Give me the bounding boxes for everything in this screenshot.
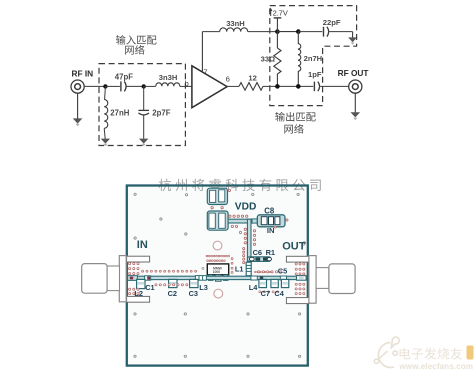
capacitor C6 xyxy=(249,257,260,261)
label 输入匹配网络 xyxy=(116,35,156,54)
pad C5 on trace xyxy=(280,276,306,281)
junction 2n7H top xyxy=(296,29,301,34)
pad L3 on trace xyxy=(195,276,206,281)
svg-text:2p7F: 2p7F xyxy=(152,109,170,118)
inductor 2n7H xyxy=(298,32,301,87)
inductor L4 xyxy=(259,279,267,287)
svg-text:www.elecfans.com: www.elecfans.com xyxy=(399,362,474,371)
via row above C6 branch xyxy=(255,271,257,273)
via row above main trace left xyxy=(142,270,144,272)
VDD pad group A xyxy=(207,188,227,204)
VDD trace horizontal xyxy=(228,219,252,223)
capacitor C4 xyxy=(281,279,288,287)
junction 33Ω bottom xyxy=(275,84,280,89)
svg-text:7: 7 xyxy=(203,68,207,77)
junction 33nH/supply xyxy=(275,29,280,34)
inductor 33nH xyxy=(202,28,277,32)
mounting hole lower xyxy=(214,289,223,298)
via rows right segment above trace xyxy=(258,271,260,273)
PCB board fill xyxy=(127,186,308,366)
sparse interior vias xyxy=(134,193,136,195)
svg-text:R1: R1 xyxy=(266,248,275,257)
wire J1 to node A xyxy=(84,85,105,87)
wire 12 to junctions xyxy=(263,85,313,87)
svg-text:33nH: 33nH xyxy=(226,19,245,28)
supply +2.7V xyxy=(269,8,281,32)
capacitor C3 xyxy=(190,279,198,287)
svg-text:OUT: OUT xyxy=(282,241,306,253)
via grid left edge above trace xyxy=(129,263,131,265)
via grid right edge above trace xyxy=(295,263,297,265)
output matching network dashed box xyxy=(270,6,357,106)
via grid right edge below trace xyxy=(295,283,297,285)
pad C1 on trace xyxy=(145,276,151,280)
SMA connector left xyxy=(82,256,127,302)
wire U1 output xyxy=(227,85,239,87)
junction 2n7H bottom xyxy=(296,84,301,89)
svg-text:C3: C3 xyxy=(189,289,198,298)
svg-text:C1: C1 xyxy=(145,283,154,292)
svg-text:VDD: VDD xyxy=(235,202,257,213)
via row below trace right xyxy=(259,291,261,293)
svg-text:L4: L4 xyxy=(249,283,259,292)
inductor 3n3H xyxy=(144,83,192,87)
capacitor C8 xyxy=(252,215,285,227)
svg-text:RF OUT: RF OUT xyxy=(338,68,369,78)
resistor R1 xyxy=(263,257,271,260)
input matching network dashed box xyxy=(99,64,185,146)
SMA pads right xyxy=(286,256,309,303)
ground under J1 xyxy=(73,93,83,126)
SMA pads left xyxy=(127,256,150,302)
svg-text:L2: L2 xyxy=(134,289,143,298)
PCB board outline xyxy=(127,186,308,366)
svg-text:27nH: 27nH xyxy=(110,109,129,118)
node B junction xyxy=(142,84,146,88)
svg-text:C5: C5 xyxy=(278,266,287,275)
node A junction xyxy=(103,84,107,88)
mounting hole upper xyxy=(213,241,222,250)
svg-text:C2: C2 xyxy=(168,289,177,298)
wire to 22pF xyxy=(298,31,322,33)
pad on trace near input xyxy=(128,276,138,281)
svg-text:12: 12 xyxy=(248,74,256,83)
IC U2 xyxy=(207,264,228,281)
op-amp U1 amplifier triangle xyxy=(192,66,227,108)
svg-text:L1: L1 xyxy=(235,264,244,273)
svg-text:IN: IN xyxy=(137,239,148,251)
inductor L1 xyxy=(246,262,251,276)
wire supply node to 2n7H node xyxy=(277,31,298,33)
svg-text:L3: L3 xyxy=(199,283,208,292)
capacitor 47pF xyxy=(105,81,143,91)
svg-text:1000: 1000 xyxy=(213,270,221,274)
orange corner mark xyxy=(467,346,474,360)
pad on trace left of L4 xyxy=(251,276,263,280)
inductor 27nH xyxy=(104,86,108,138)
svg-text:3n3H: 3n3H xyxy=(159,73,178,82)
ground under J2 xyxy=(351,93,361,120)
label 输出匹配网络 xyxy=(275,112,315,134)
VDD trace vertical xyxy=(247,219,251,262)
via row below main trace left xyxy=(155,284,157,286)
svg-text:6: 6 xyxy=(226,75,230,84)
C6 R1 branch trace xyxy=(247,257,270,262)
svg-text:2.7V: 2.7V xyxy=(273,8,288,17)
svg-text:IN: IN xyxy=(267,226,275,235)
capacitor 2p7F xyxy=(138,86,149,138)
inductor L2 xyxy=(137,279,145,288)
capacitor C2 xyxy=(169,279,177,287)
ground under 27nH xyxy=(101,139,110,147)
connector J2 RF OUT xyxy=(349,80,362,93)
svg-text:1pF: 1pF xyxy=(308,70,322,79)
svg-text:33Ω: 33Ω xyxy=(261,55,276,64)
vias top rows near VDD trace xyxy=(229,215,231,217)
svg-text:22pF: 22pF xyxy=(323,18,341,27)
svg-text:RF IN: RF IN xyxy=(72,69,94,79)
elecfans watermark text 电子发烧友 xyxy=(400,348,463,360)
elecfans watermark logo xyxy=(374,337,399,367)
SMA connector right xyxy=(309,256,355,304)
via grid left edge below trace xyxy=(129,288,131,290)
resistor 33Ω xyxy=(274,32,281,87)
wire U1 top to 33nH rail xyxy=(201,32,203,73)
svg-text:47pF: 47pF xyxy=(115,73,133,82)
via column right of IC xyxy=(231,258,233,260)
svg-text:C8: C8 xyxy=(264,206,275,215)
connector J1 RF IN xyxy=(71,80,84,93)
main signal trace xyxy=(128,276,306,279)
ground after 22pF xyxy=(348,37,357,44)
resistor 12 xyxy=(239,83,263,91)
svg-text:C6: C6 xyxy=(253,248,262,257)
vias column left of C6 branch xyxy=(243,248,245,250)
svg-text:2n7H: 2n7H xyxy=(304,54,323,63)
ground under 2p7F xyxy=(139,139,148,147)
vias column flanking VDD vertical trace xyxy=(244,228,246,230)
svg-text:C7: C7 xyxy=(261,289,270,298)
VDD pad group B xyxy=(207,211,228,230)
capacitor 1pF xyxy=(314,82,348,92)
svg-text:b: b xyxy=(185,79,189,88)
via row above IC xyxy=(206,255,208,257)
capacitor C7 xyxy=(271,279,278,287)
capacitor 22pF xyxy=(324,27,353,38)
svg-text:C4: C4 xyxy=(274,289,284,298)
watermark 杭州将睿科技有限公司 xyxy=(159,179,321,192)
